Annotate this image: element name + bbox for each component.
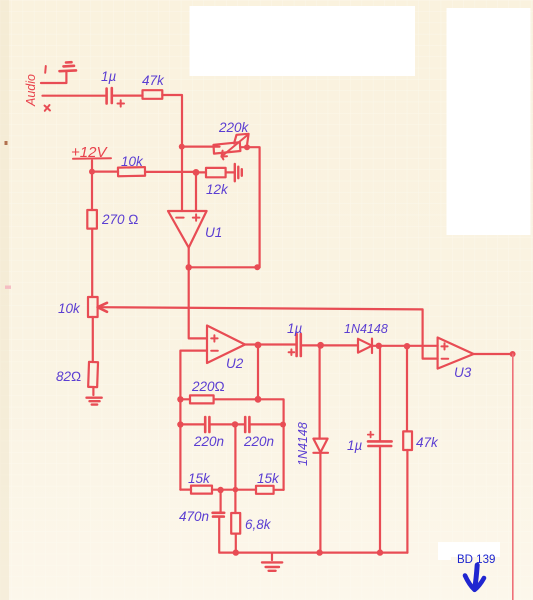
wire: 220ohm to right edge [214, 399, 284, 490]
diode D2 1N4148 (vertical) [313, 439, 328, 453]
wire: U2 output down to 220ohm row [257, 345, 259, 399]
white-out rectangle top [190, 6, 416, 76]
node dot feedback corner [254, 264, 260, 270]
U1 plus sign [193, 214, 200, 220]
potentiometer 220k body [214, 142, 241, 153]
svg-text:220k: 220k [218, 120, 250, 135]
wire: 10k row [92, 171, 118, 173]
scan edge shading [0, 0, 9, 600]
svg-text:U1: U1 [205, 225, 222, 240]
node dot rail/cap branch [377, 549, 383, 555]
wire: 10k to node [145, 171, 196, 173]
faint pink dash left edge [5, 286, 11, 289]
potentiometer 10k body [88, 297, 98, 317]
ground (audio input) [60, 62, 77, 71]
wire: 47k branch vertical lower [406, 450, 408, 553]
wiper arrowhead [98, 303, 107, 312]
U2 minus sign [211, 350, 218, 352]
svg-text:15k: 15k [257, 471, 280, 486]
+12V rail vertical [91, 161, 93, 211]
wire: 47k to feedback node, down to U1 inverting input [162, 95, 182, 211]
resistor 15k (right) [256, 486, 274, 494]
wire: pot wiper line to U3 inverting input [98, 307, 438, 358]
svg-text:270 Ω: 270 Ω [101, 212, 139, 227]
node dot 15k junction [217, 487, 223, 493]
wire: diode branch vertical upper [319, 345, 321, 438]
wire: pot to 82ohm [92, 317, 94, 362]
U2 plus sign [211, 335, 217, 341]
node dot caps junction [232, 421, 238, 427]
wire: U1 + input vertical [195, 172, 197, 211]
wire: ground stub [271, 553, 273, 560]
svg-text:+12V: +12V [71, 144, 108, 161]
svg-text:82Ω: 82Ω [56, 369, 81, 384]
resistor 12k [206, 168, 226, 177]
node dot middle/15k row [233, 487, 239, 493]
ground (bottom rail) [262, 562, 282, 570]
wire: cap branch vertical upper [379, 346, 381, 441]
wire: U1 output down [189, 248, 207, 339]
node dot U2- / 220ohm [177, 396, 183, 402]
node dot rail/diode branch [316, 549, 322, 555]
node dot right edge / 220n row [280, 422, 286, 428]
wire: 470n to rail corner [219, 518, 236, 553]
plus polarity mark (C1) [118, 100, 125, 106]
resistor 270ohm [87, 210, 97, 229]
svg-text:220Ω: 220Ω [191, 379, 225, 394]
wire: C1 to R1 [113, 94, 143, 96]
wire: 15k right to edge [274, 489, 284, 491]
svg-text:10k: 10k [58, 301, 81, 316]
wire: output vertical to bottom edge [512, 354, 514, 600]
node dot U3 output corner [510, 351, 516, 357]
node dot U2- / 220n [177, 421, 183, 427]
node dot 10k/12k/U1+ [193, 169, 200, 176]
node dot +12V/10k [89, 169, 95, 175]
node dot 6.8k bottom [233, 549, 239, 555]
node dot 220k tap [179, 144, 185, 150]
wire: between 220n caps [210, 423, 245, 425]
U3 plus sign [441, 343, 447, 349]
svg-text:1µ: 1µ [287, 321, 303, 336]
wire: 15k junction down to 470n [220, 490, 222, 512]
plus polarity mark (C3) [368, 432, 374, 438]
U3 minus sign [442, 358, 449, 360]
wire: audio minus to ground [41, 72, 66, 84]
wire: U1 output to feedback corner [189, 266, 260, 268]
wire: U2 output [245, 343, 296, 345]
red handwritten labels [24, 74, 108, 161]
potentiometer 220k upper sketch [234, 134, 249, 144]
plus polarity mark (audio) [45, 105, 51, 111]
svg-text:10k: 10k [121, 154, 144, 169]
capacitor 220n (left) [205, 417, 209, 432]
wire: 270ohm to pot [91, 229, 93, 297]
wire: 12k to ground [226, 171, 234, 173]
resistor 220ohm [190, 395, 214, 403]
node dot U2 output [255, 342, 262, 349]
wire: 6.8k to rail [235, 534, 237, 553]
capacitor C2 1u [297, 334, 301, 356]
capacitor 470n [213, 513, 225, 517]
node dot 47k top [404, 343, 410, 349]
wire: 220n right to edge [250, 423, 284, 425]
speck on left edge [5, 141, 8, 145]
wire: 15k junction [212, 489, 256, 491]
resistor 82ohm [88, 362, 98, 387]
ground (12k, sideways) [235, 164, 242, 181]
wire: cap branch vertical lower [379, 446, 381, 552]
wire: 82ohm to ground [92, 387, 94, 395]
op-amp U2 [207, 326, 245, 364]
resistor 47k (output) [403, 431, 412, 450]
node dot 220ohm row [255, 396, 262, 403]
twin-T: 220ohm row [180, 398, 190, 400]
svg-text:Audio: Audio [24, 74, 38, 107]
svg-text:U3: U3 [454, 365, 472, 380]
node dot C2/D2 junction [317, 342, 324, 349]
op-amp U3 [438, 338, 474, 369]
op-amp U1 [168, 211, 207, 248]
wire: D1 to U3 + input [372, 345, 438, 347]
twin-T: 15k row left wire [180, 489, 191, 491]
ground (82ohm) [87, 398, 102, 405]
U1 minus sign [176, 217, 183, 219]
labels (handwritten purple) [56, 69, 472, 532]
svg-text:47k: 47k [416, 435, 439, 450]
svg-text:220n: 220n [193, 434, 224, 449]
resistor 6.8k [231, 513, 240, 534]
capacitor C1 1u [107, 88, 112, 104]
svg-text:220n: 220n [243, 434, 274, 449]
node dot 220k right [244, 144, 250, 150]
wire: caps junction down to 6.8k [234, 424, 236, 513]
plus polarity mark (C2) [289, 349, 295, 355]
wire: 220k right to feedback vertical [240, 147, 259, 267]
svg-text:15k: 15k [188, 471, 211, 486]
resistor R 47k [143, 90, 163, 99]
wire: U2 inverting input left and down [180, 351, 207, 490]
white-out rectangle right [447, 8, 531, 235]
svg-text:1µ: 1µ [347, 438, 363, 453]
svg-text:470n: 470n [179, 509, 209, 524]
node dot D1 cathode [376, 343, 382, 349]
capacitor C3 1u (vertical) [368, 441, 392, 446]
svg-text:1µ: 1µ [101, 69, 117, 84]
node dot U1 output [186, 264, 192, 270]
wire: 47k branch vertical upper [406, 346, 408, 431]
bottom rail [236, 551, 408, 553]
twin-T: 220n row left wire [180, 423, 204, 425]
arrow BD139 [475, 565, 478, 589]
svg-text:6,8k: 6,8k [245, 517, 272, 532]
svg-text:12k: 12k [206, 182, 229, 197]
minus polarity mark [44, 66, 47, 73]
diode D1 1N4148 [358, 339, 372, 353]
wire: C2 to D1 [301, 344, 358, 346]
capacitor 220n (right) [245, 417, 249, 432]
white-out rectangle BD139 [438, 542, 500, 557]
wire: diode branch vertical lower [319, 453, 321, 553]
potentiometer 220k wiper arrow [221, 135, 248, 160]
resistor 15k (left) [191, 486, 212, 494]
svg-text:U2: U2 [226, 356, 244, 371]
svg-text:47k: 47k [142, 73, 165, 88]
resistor 10k (series) [118, 167, 145, 176]
wire: node to 12k [196, 171, 206, 173]
svg-text:1N4148: 1N4148 [296, 422, 310, 466]
svg-text:1N4148: 1N4148 [344, 322, 388, 336]
wire: audio input to C1 [43, 95, 106, 97]
+12V underline [73, 157, 111, 160]
wire: 220k branch left [182, 146, 220, 148]
wire: U3 output [474, 353, 513, 355]
